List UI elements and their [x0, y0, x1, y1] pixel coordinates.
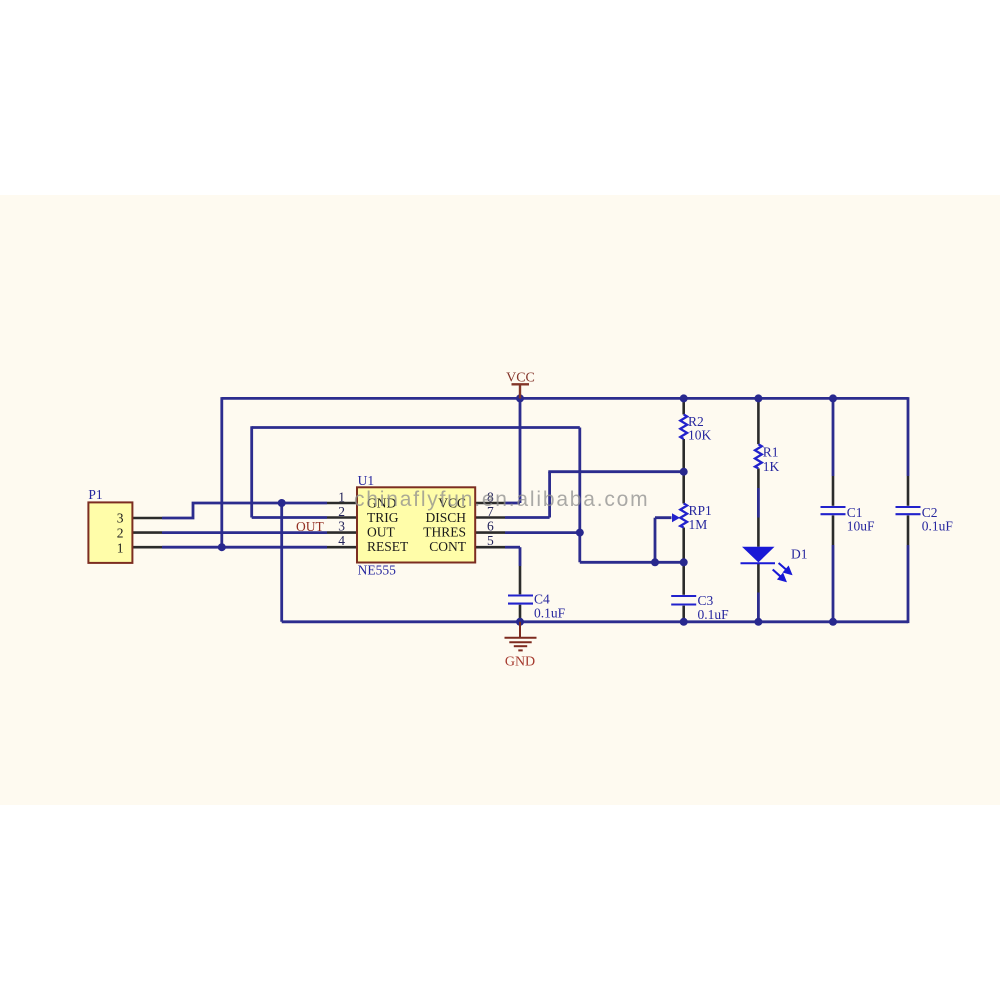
- svg-text:10K: 10K: [688, 427, 712, 442]
- wire C1 bottom: [832, 545, 835, 622]
- capacitor C2 plates: [896, 507, 921, 514]
- junction VCC rail at R2: [680, 394, 688, 402]
- wire VCC rail left drop: [220, 397, 223, 547]
- svg-text:RESET: RESET: [367, 539, 409, 554]
- pin U1-7 stub: [475, 516, 505, 519]
- svg-text:5: 5: [487, 533, 494, 548]
- junction GND rail at C4: [516, 618, 524, 626]
- pin C4 bottom stub: [519, 605, 522, 622]
- pin U1-2 stub: [327, 516, 357, 519]
- wire DISCH to R2 bottom: [548, 470, 683, 473]
- svg-text:NE555: NE555: [358, 563, 396, 578]
- pin P1-1 stub: [133, 546, 163, 549]
- wire RESET net: [162, 546, 327, 549]
- pin U1-4 stub: [327, 546, 357, 549]
- capacitor C4 plates: [508, 596, 533, 604]
- svg-text:1M: 1M: [689, 517, 708, 532]
- wire TRIG to U1 pin2: [252, 516, 327, 519]
- wire RP1 wiper vertical: [654, 518, 657, 563]
- resistor R2 zigzag: [680, 415, 687, 440]
- svg-text:U1: U1: [358, 473, 375, 488]
- wire DISCH riser: [548, 472, 551, 518]
- wire C1 top: [832, 398, 835, 476]
- svg-text:C3: C3: [698, 593, 714, 608]
- capacitor C1 plates: [821, 507, 846, 514]
- wire RP1 wiper horizontal: [655, 516, 672, 519]
- wire GND bottom rail: [282, 620, 908, 623]
- pin U1-5 stub: [475, 546, 505, 549]
- junction RESET at VCC drop: [218, 543, 226, 551]
- junction wiper bottom: [651, 558, 659, 566]
- wire VCC down to pin8: [519, 398, 522, 503]
- pin U1-8 stub: [475, 502, 505, 505]
- pin P1-2 stub: [133, 531, 163, 534]
- svg-text:1: 1: [338, 490, 345, 505]
- background band: [0, 195, 1000, 805]
- wire TRIG left drop: [250, 426, 253, 517]
- connector P1 box: [88, 502, 132, 563]
- svg-text:3: 3: [338, 519, 345, 534]
- svg-text:CONT: CONT: [429, 539, 467, 554]
- svg-text:3: 3: [117, 511, 124, 526]
- svg-text:1: 1: [117, 540, 124, 555]
- LED D1 light arrow 1: [779, 563, 791, 574]
- junction GND net at U1 pin1: [278, 499, 286, 507]
- resistor R1 zigzag: [755, 444, 762, 468]
- wire VCC rail top: [222, 397, 908, 400]
- junction VCC rail at VCC stub: [516, 394, 524, 402]
- svg-text:GND: GND: [505, 655, 535, 670]
- pin R1 top stub: [757, 398, 760, 444]
- svg-text:DISCH: DISCH: [425, 510, 466, 525]
- wire R1 to D1: [757, 488, 760, 518]
- svg-text:2: 2: [117, 525, 124, 540]
- wire DISCH horizontal: [505, 516, 550, 519]
- junction GND rail at C1: [829, 618, 837, 626]
- junction RP1 bottom: [680, 558, 688, 566]
- wire RP1 bottom horizontal: [580, 561, 684, 564]
- ground symbol: [505, 622, 537, 651]
- pin C1 bottom stub: [832, 515, 835, 545]
- power VCC symbol: [512, 384, 530, 398]
- pin D1 top stub: [757, 518, 760, 547]
- wire THRES vertical: [578, 428, 581, 563]
- pin U1-6 stub: [475, 531, 505, 534]
- pin R2 top stub: [682, 398, 685, 414]
- wire GND vertical drop: [280, 503, 283, 622]
- wire OUT net: [162, 531, 327, 534]
- pin U1-1 stub: [327, 502, 357, 505]
- LED D1 cathode bar: [741, 562, 776, 564]
- pin C2 top stub: [907, 476, 910, 506]
- junction THRES tap: [576, 529, 584, 537]
- svg-text:THRES: THRES: [423, 525, 466, 540]
- pin C2 bottom stub: [907, 515, 910, 545]
- svg-text:OUT: OUT: [367, 525, 395, 540]
- pin P1-3 stub: [133, 517, 163, 520]
- svg-text:2: 2: [338, 504, 345, 519]
- pin C1 top stub: [832, 476, 835, 506]
- pin C3 bottom stub: [682, 606, 685, 622]
- op-amp U1 box NE555: [357, 487, 475, 562]
- svg-text:1K: 1K: [763, 459, 780, 474]
- pin R2 bottom stub: [682, 439, 685, 472]
- pin R1 bottom stub: [757, 468, 760, 488]
- wire P1 pin3 to U1 pin1 step: [162, 503, 327, 518]
- potentiometer RP1 wiper arrowhead: [672, 513, 680, 522]
- wire TRIG rail: [252, 426, 580, 429]
- LED D1 light arrow 2: [773, 570, 786, 581]
- wire C2 top: [907, 397, 910, 476]
- svg-text:0.1uF: 0.1uF: [922, 519, 954, 534]
- wire CONT horizontal: [505, 546, 520, 549]
- svg-text:6: 6: [487, 519, 494, 534]
- svg-text:TRIG: TRIG: [367, 510, 399, 525]
- junction VCC rail at C1: [829, 394, 837, 402]
- pin C4 top stub: [519, 566, 522, 594]
- wire THRES horizontal: [505, 531, 580, 534]
- junction VCC rail at R1: [754, 394, 762, 402]
- svg-text:OUT: OUT: [296, 519, 324, 534]
- svg-text:chinaflyfun.en.alibaba.com: chinaflyfun.en.alibaba.com: [354, 488, 649, 511]
- svg-text:R1: R1: [763, 445, 779, 460]
- svg-text:D1: D1: [791, 547, 808, 562]
- potentiometer RP1 zigzag: [680, 504, 687, 528]
- wire U1 pin8 to VCC stub: [505, 502, 520, 505]
- pin D1 bottom stub: [757, 563, 760, 592]
- svg-text:0.1uF: 0.1uF: [698, 607, 730, 622]
- pin RP1 top stub: [682, 472, 685, 504]
- capacitor C3 plates: [671, 596, 696, 605]
- pin RP1 bottom stub: [682, 528, 685, 563]
- junction GND rail at C3: [680, 618, 688, 626]
- pin U1-3 stub: [327, 531, 357, 534]
- svg-text:4: 4: [338, 533, 345, 548]
- svg-text:0.1uF: 0.1uF: [534, 606, 566, 621]
- pin C3 top stub: [682, 562, 685, 595]
- svg-text:RP1: RP1: [689, 503, 712, 518]
- svg-text:VCC: VCC: [506, 371, 535, 386]
- svg-text:P1: P1: [88, 487, 102, 502]
- svg-text:C4: C4: [534, 592, 550, 607]
- junction R2 bottom DISCH: [680, 468, 688, 476]
- junction dots: [218, 394, 837, 625]
- wire C2 bottom: [907, 545, 910, 623]
- wire CONT drop to C4: [519, 547, 522, 566]
- wire D1 to GND rail: [757, 593, 760, 622]
- svg-text:10uF: 10uF: [847, 519, 875, 534]
- junction GND rail at D1: [754, 618, 762, 626]
- LED D1 triangle: [742, 547, 775, 563]
